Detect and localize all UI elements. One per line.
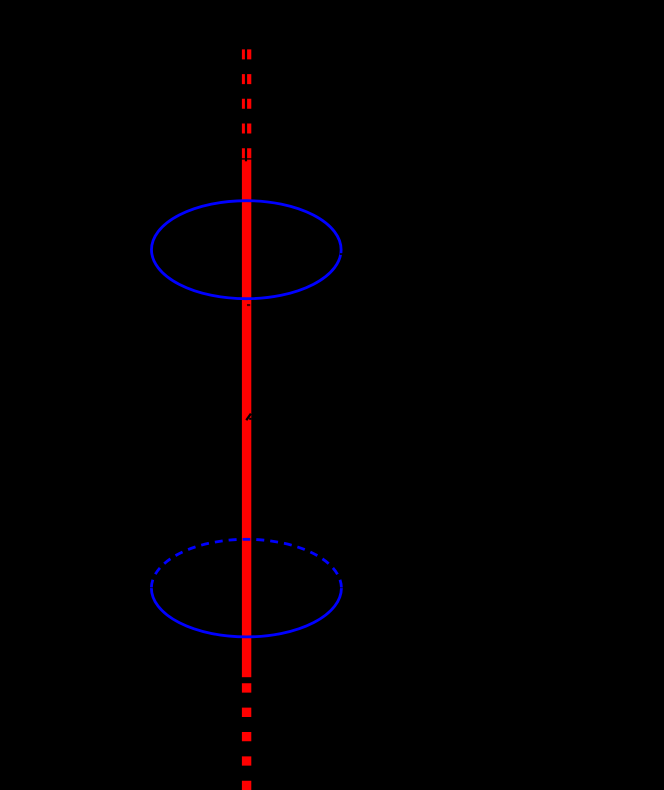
field loop B1 (top, solid blue ellipse) [152,201,342,299]
field arrowhead smudge (dark over wire below top loop) [247,304,250,306]
wire dashed extension (top) [242,49,251,158]
axis line (black, over top dashes) [245,45,247,161]
wire solid segment (red conductor) [242,160,251,678]
arrowhead fragment (black dot over wire) [249,418,251,420]
field loop B2 back arc (bottom ellipse, dashed upper half) [151,539,341,588]
arrowhead notch on loop B1 right edge [340,253,343,255]
field loop B2 front arc (bottom ellipse, solid lower half) [151,588,341,637]
wire dashed extension (bottom) [242,683,251,790]
current arrow fragment (black over wire) [246,414,251,421]
